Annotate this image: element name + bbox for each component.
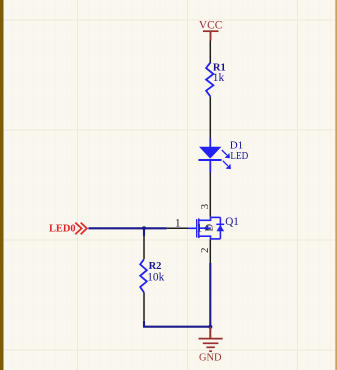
svg-text:1k: 1k [213, 72, 225, 84]
svg-text:GND: GND [199, 352, 222, 363]
svg-text:10k: 10k [147, 271, 164, 283]
svg-text:Q1: Q1 [225, 216, 239, 228]
svg-text:3: 3 [199, 203, 211, 209]
svg-text:1: 1 [175, 216, 181, 230]
svg-text:1: 1 [196, 221, 202, 235]
svg-text:2: 2 [199, 248, 211, 254]
svg-text:VCC: VCC [199, 20, 222, 32]
svg-text:LED0: LED0 [49, 224, 76, 235]
svg-text:LED: LED [230, 150, 248, 162]
svg-text:D: D [203, 224, 215, 232]
svg-text:R2: R2 [149, 261, 162, 272]
